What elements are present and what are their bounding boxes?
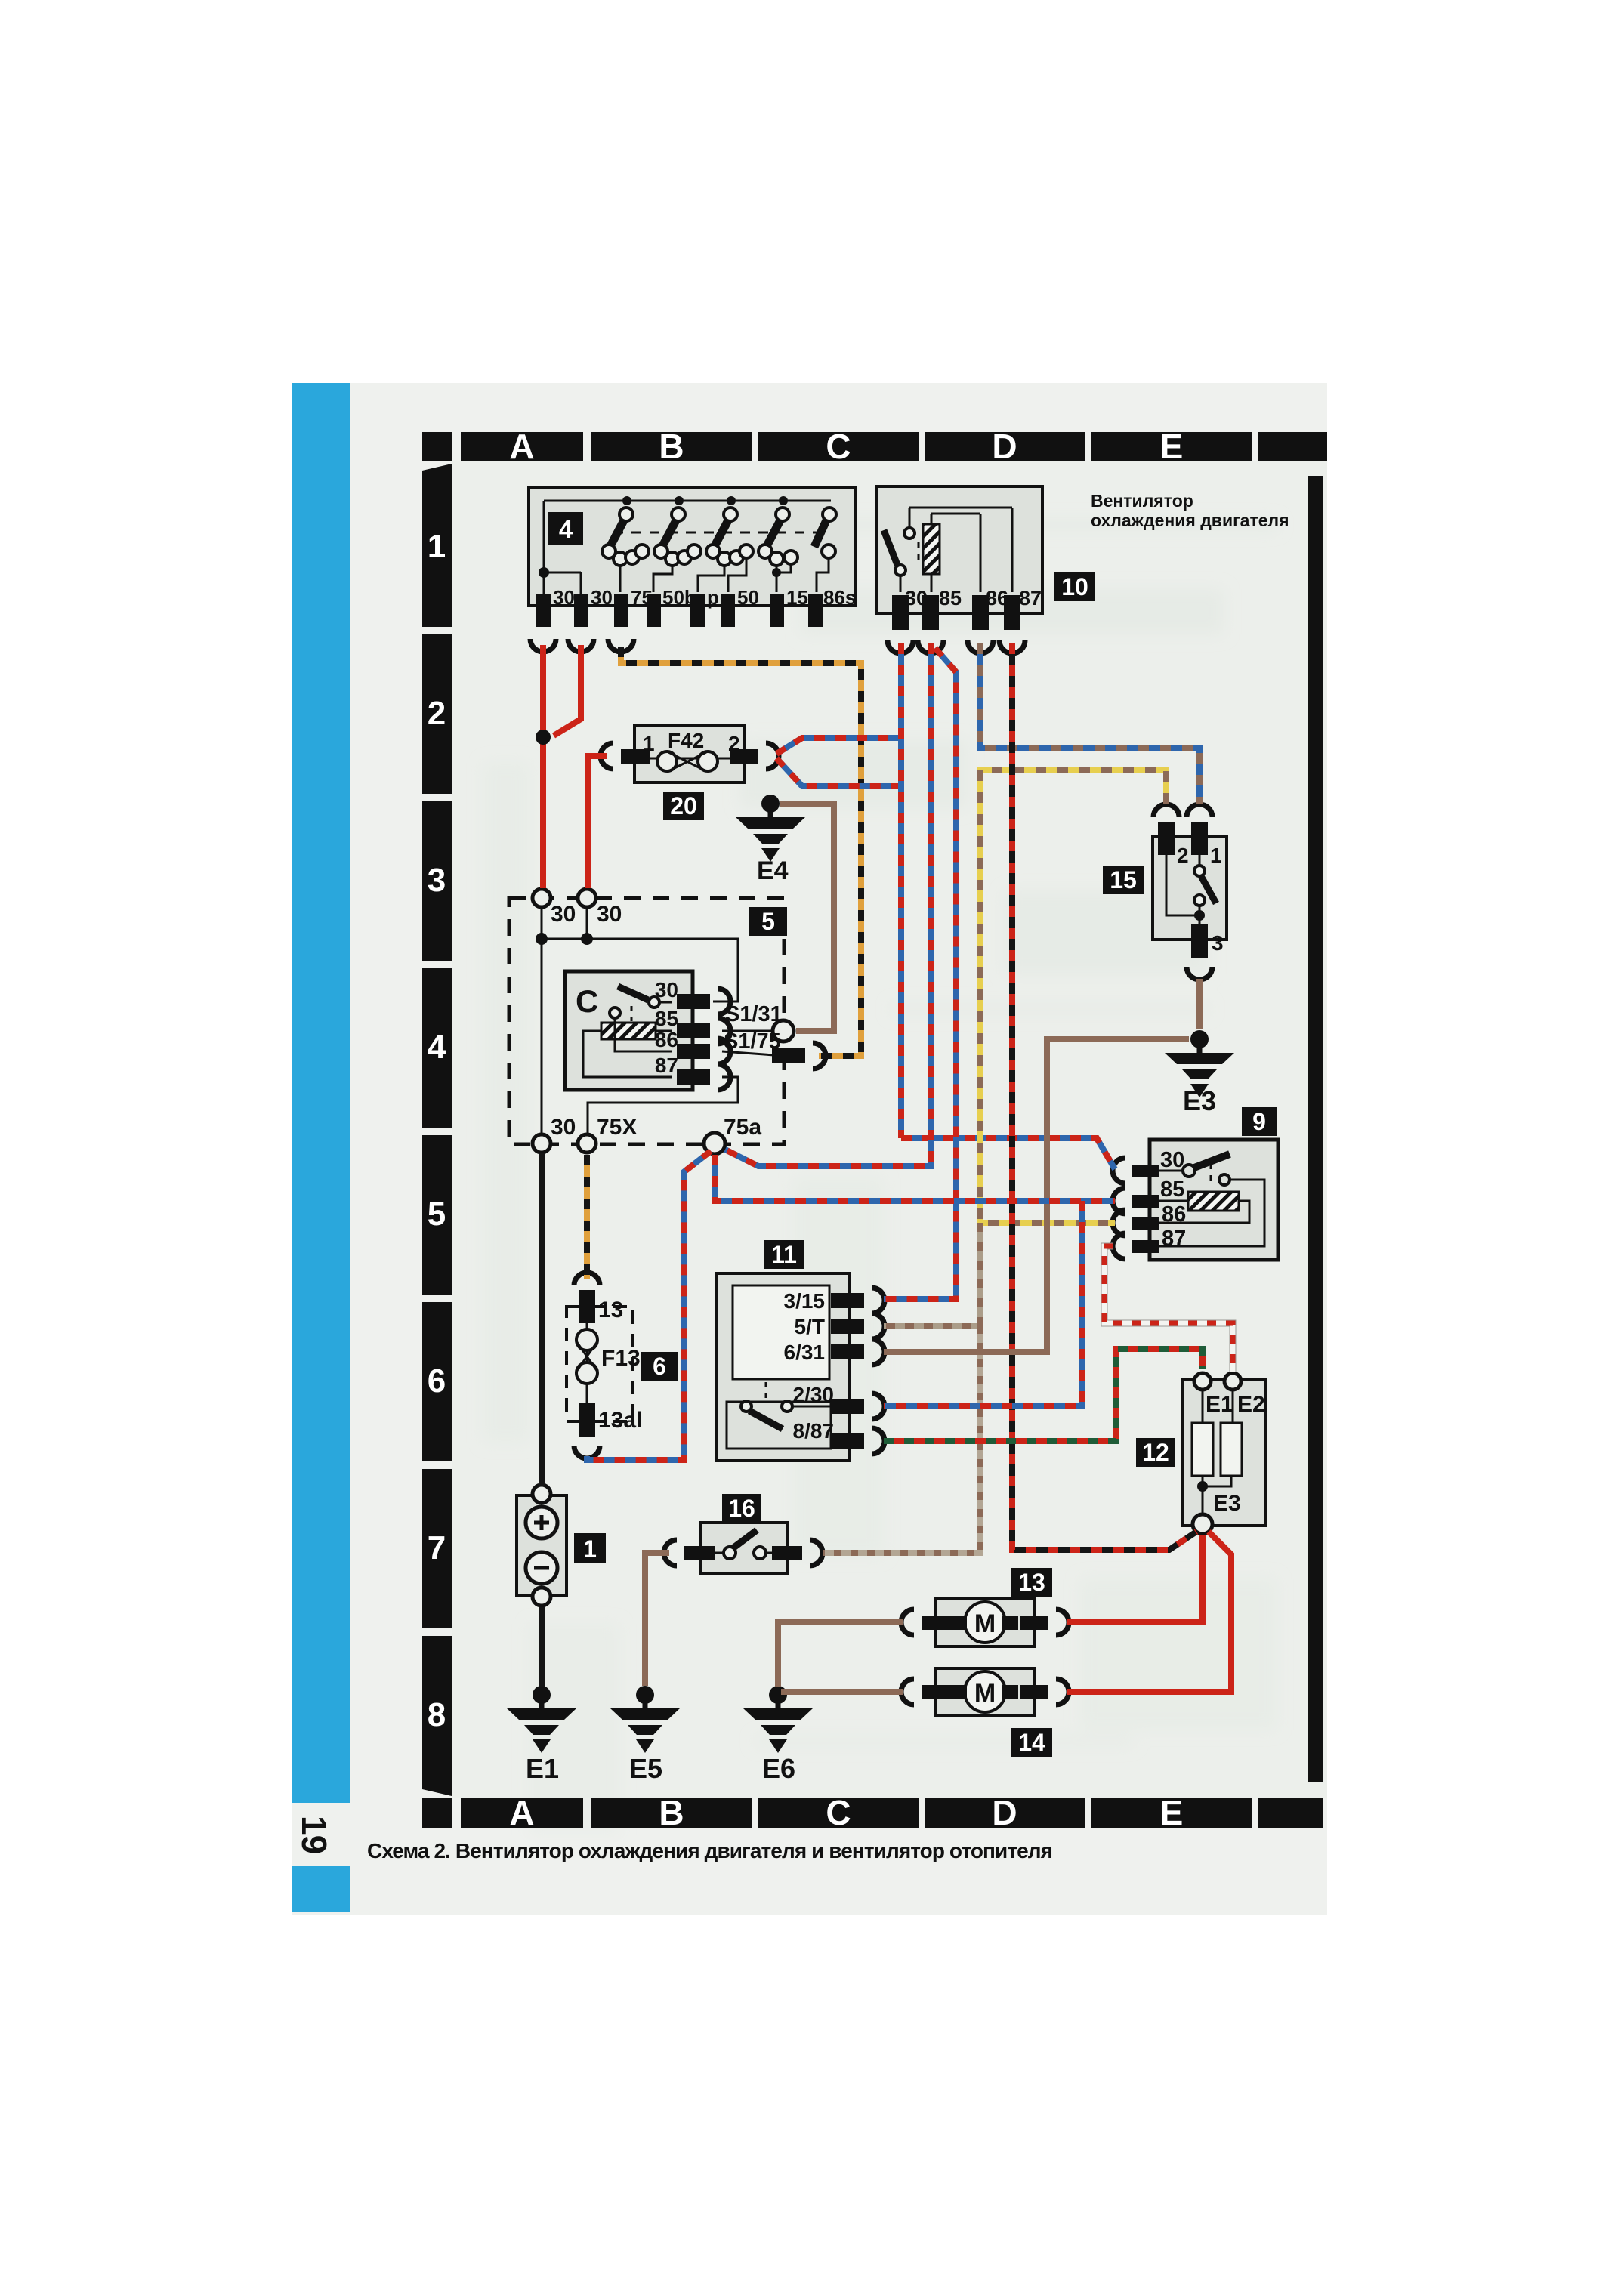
wire ground E4 to S1/31 (brown)	[780, 804, 834, 1031]
node S1/75	[722, 1051, 774, 1055]
wire motor14 to ground E6 (brown)	[781, 1689, 903, 1695]
svg-text:3/15: 3/15	[784, 1289, 826, 1313]
node 30 (bottom)	[533, 1134, 551, 1153]
wire ground E3 to unit11 6/31 (brown)	[884, 1039, 1189, 1352]
relay 10 terminal labels	[905, 587, 1042, 609]
svg-text:13: 13	[1018, 1569, 1045, 1596]
relay C switch	[618, 986, 648, 1000]
wire resistor E3 to motor13 (red)	[1067, 1535, 1203, 1622]
svg-text:3: 3	[1212, 931, 1224, 955]
wire fuse F42 pin1 to node 30 (red)	[588, 756, 607, 888]
wire relay9:87 to resistor E2 (white/red)	[1104, 1246, 1233, 1372]
svg-text:5: 5	[428, 1196, 446, 1233]
svg-text:Вентилятор: Вентилятор	[1091, 491, 1193, 511]
ignition switch park dashed line	[613, 532, 823, 534]
relay C box	[565, 971, 693, 1090]
wire ignition 75 to S1/75 (yellow/black)	[621, 647, 861, 1056]
svg-text:30: 30	[553, 586, 575, 609]
svg-text:6: 6	[653, 1353, 666, 1380]
svg-text:A: A	[509, 427, 534, 466]
wire relay10:86 to switch15 pin1 (blue/brown)	[980, 643, 1199, 804]
wire relay10:30 down to relay9 row (red/blue)	[898, 643, 904, 1138]
wire switch15 pin3 to ground E3 (brown)	[1196, 979, 1203, 1029]
row numbers	[428, 528, 446, 1733]
svg-text:15: 15	[1110, 866, 1137, 893]
switch part	[765, 1382, 767, 1403]
svg-text:12: 12	[1142, 1439, 1169, 1466]
ground E5	[610, 1686, 680, 1784]
heater fan motor 14	[901, 1668, 1069, 1757]
svg-text:14: 14	[1018, 1729, 1045, 1756]
svg-text:9: 9	[1252, 1108, 1266, 1135]
wire to relay9:30 (red/blue)	[901, 1138, 1115, 1169]
wire relay10:87 to resistor node E3 (black/red)	[1012, 643, 1196, 1550]
wire branch to switch16 (gray/brown)	[823, 1326, 980, 1553]
svg-text:E: E	[1160, 427, 1184, 466]
label 1	[574, 1533, 606, 1563]
svg-text:75X: 75X	[597, 1115, 637, 1140]
border frame: left bar segments with row numbers	[422, 464, 452, 1796]
ground E1	[507, 1686, 576, 1784]
node 30 (top right)	[578, 889, 596, 907]
border frame: bottom bar segments	[422, 1798, 1323, 1828]
svg-text:13: 13	[598, 1298, 623, 1322]
ground E6	[743, 1686, 813, 1784]
wire branch to unit11 5/T (yellow/brown)	[884, 1223, 980, 1326]
label 20	[663, 792, 704, 820]
svg-text:B: B	[659, 1793, 684, 1832]
relay 9 pins	[1132, 1165, 1159, 1253]
fuse symbol	[586, 1323, 588, 1403]
svg-text:D: D	[992, 427, 1017, 466]
svg-text:1: 1	[583, 1535, 597, 1563]
svg-text:E: E	[1160, 1793, 1184, 1832]
connector arcs under pins 30 30 75	[530, 639, 556, 652]
node E1	[1194, 1373, 1211, 1390]
svg-text:S1/31: S1/31	[725, 1002, 783, 1026]
switch 16	[664, 1494, 823, 1574]
wire switch15 pin2 to relay9:86 (yellow/brown)	[980, 770, 1166, 1223]
dashed box 5 (ignition/starter relay unit)	[509, 889, 826, 1154]
pin 2	[730, 749, 758, 764]
pin 1	[621, 749, 650, 764]
relay 9 (heater fan relay)	[1113, 1107, 1278, 1260]
svg-text:4: 4	[428, 1029, 446, 1066]
label 6	[641, 1352, 678, 1381]
svg-text:4: 4	[559, 515, 573, 543]
heater fan motor 13	[901, 1568, 1069, 1646]
pin 2	[1153, 804, 1179, 817]
svg-text:75a: 75a	[724, 1115, 761, 1140]
junction to E3	[1202, 1476, 1204, 1515]
relay 9 terminal labels	[1160, 1148, 1186, 1251]
node S1/31	[722, 1030, 773, 1032]
junction dot on red wire	[536, 730, 551, 745]
svg-text:3: 3	[428, 862, 446, 899]
ground E3	[1165, 1030, 1234, 1116]
svg-text:E2: E2	[1237, 1392, 1265, 1417]
relay C pins	[677, 994, 710, 1085]
svg-text:5: 5	[761, 908, 775, 935]
svg-text:85: 85	[655, 1007, 678, 1030]
svg-text:30: 30	[597, 902, 622, 927]
svg-text:19: 19	[295, 1816, 334, 1854]
wire battery positive to node 30 (black)	[539, 1153, 545, 1486]
svg-text:2: 2	[428, 695, 446, 732]
fuse F42 (box 20)	[601, 725, 779, 820]
border frame: right heavy bar	[1308, 476, 1323, 1782]
resistor block 12	[1136, 1373, 1266, 1534]
blue margin stripe	[292, 383, 350, 1803]
battery 1	[517, 1485, 606, 1606]
wire relay10:85 to node 75a (red/blue)	[725, 643, 931, 1166]
svg-text:2: 2	[1177, 844, 1189, 867]
resistor R1	[1202, 1390, 1204, 1423]
svg-text:30: 30	[551, 1115, 576, 1140]
svg-text:C: C	[826, 1793, 851, 1832]
svg-text:M: M	[974, 1679, 996, 1708]
svg-text:E5: E5	[629, 1753, 662, 1784]
relay 10 pins 30 85 86 87	[892, 595, 1020, 630]
wire node 75a to fuse 13al (red/blue)	[587, 1151, 711, 1460]
svg-text:85: 85	[939, 587, 962, 609]
svg-text:30: 30	[655, 978, 678, 1001]
svg-text:13al: 13al	[598, 1408, 642, 1433]
svg-text:30: 30	[591, 586, 613, 609]
wire relay10:85 branch to unit11 3/15 (red/blue)	[884, 648, 956, 1299]
svg-text:F42: F42	[668, 729, 704, 752]
terminal pins	[536, 594, 823, 627]
svg-text:E3: E3	[1183, 1085, 1216, 1116]
relay C coil	[601, 1023, 656, 1039]
svg-text:87: 87	[1019, 587, 1042, 609]
svg-text:86: 86	[655, 1028, 678, 1051]
svg-text:11: 11	[771, 1241, 797, 1268]
relay 9 switch	[1157, 1170, 1183, 1172]
svg-text:5/T: 5/T	[795, 1315, 825, 1338]
relay 10 coil	[923, 524, 940, 574]
svg-text:B: B	[659, 427, 684, 466]
svg-text:8: 8	[428, 1696, 446, 1733]
svg-text:1: 1	[1210, 844, 1222, 867]
wire unit11 8/87 to resistor E1 (red/green)	[884, 1349, 1203, 1441]
internal bus wires	[541, 907, 543, 1135]
pin 1	[1187, 804, 1212, 817]
wire branch to unit11 2/30 (red/blue)	[884, 1201, 1082, 1406]
wire ground E5 to switch16 (brown)	[645, 1553, 669, 1686]
switch 15 contacts	[1199, 855, 1201, 866]
svg-text:M: M	[974, 1609, 996, 1638]
svg-text:D: D	[992, 1793, 1017, 1832]
svg-text:E6: E6	[762, 1753, 795, 1784]
pin 13al	[579, 1403, 595, 1437]
fuse F13 (box 6)	[567, 1273, 678, 1458]
wire node 75a to relay9:85 (red/blue)	[715, 1155, 1115, 1201]
svg-text:C: C	[576, 983, 598, 1019]
svg-text:7: 7	[428, 1529, 446, 1566]
wire F42 pin2 upper branch to relay10:30 (red/blue)	[776, 738, 901, 754]
scanned page background	[292, 383, 1327, 1915]
faint bleed-through ghosts	[483, 521, 1277, 1835]
svg-text:86s: 86s	[823, 586, 856, 609]
label 10	[1054, 572, 1095, 601]
svg-text:E3: E3	[1213, 1491, 1241, 1516]
ignition switch gang contacts	[602, 496, 836, 592]
heater control unit 11	[716, 1240, 885, 1461]
ground E4	[736, 795, 805, 885]
wire ignition 30a to node 30 (red)	[540, 645, 546, 888]
wire motor13 to ground E6 (brown)	[778, 1622, 903, 1687]
wire F42 pin2 lower branch (red/blue)	[776, 758, 901, 786]
node E2	[1224, 1373, 1241, 1390]
svg-text:Схема 2. Вентилятор охлаждения: Схема 2. Вентилятор охлаждения двигателя…	[367, 1839, 1053, 1862]
svg-text:6/31: 6/31	[784, 1341, 826, 1364]
resistor R2	[1221, 1423, 1242, 1476]
relay 10 switch	[900, 576, 902, 592]
svg-text:8/87: 8/87	[793, 1419, 835, 1443]
svg-text:2/30: 2/30	[793, 1383, 835, 1406]
svg-text:10: 10	[1061, 573, 1088, 600]
svg-text:охлаждения двигателя: охлаждения двигателя	[1091, 511, 1289, 530]
node 75X	[578, 1134, 596, 1153]
svg-text:E4: E4	[757, 856, 789, 885]
svg-text:30: 30	[1160, 1148, 1184, 1172]
svg-text:85: 85	[1160, 1177, 1184, 1202]
svg-text:E1: E1	[1206, 1392, 1233, 1417]
thermo switch 15	[1103, 804, 1227, 980]
ignition switch internal bus	[544, 500, 831, 502]
pins 3/15 5/T 6/31 2/30 8/87	[831, 1293, 864, 1449]
svg-text:87: 87	[655, 1054, 678, 1077]
fuse symbol	[648, 758, 731, 760]
pin 13	[574, 1273, 600, 1285]
wire battery negative to ground E1 (black)	[539, 1607, 545, 1687]
ignition switch 4	[529, 488, 856, 652]
node 75a	[704, 1133, 725, 1154]
svg-text:50: 50	[737, 586, 759, 609]
column letters bottom	[509, 1793, 1183, 1832]
relay 10 (cooling fan relay)	[876, 486, 1095, 653]
node 30 (top left)	[533, 889, 551, 907]
wire resistor E3 to motor14 (red)	[1067, 1532, 1231, 1692]
svg-text:16: 16	[728, 1495, 755, 1522]
svg-text:20: 20	[670, 792, 697, 819]
relay C terminal labels	[655, 978, 678, 1077]
svg-text:6: 6	[428, 1362, 446, 1400]
svg-text:C: C	[826, 427, 851, 466]
column letters top	[509, 427, 1183, 466]
svg-text:A: A	[509, 1793, 534, 1832]
svg-text:E1: E1	[526, 1753, 559, 1784]
terminal labels 30 30 75 50b p 50 15 86s	[553, 586, 856, 609]
wire 87 to 75X	[588, 1077, 738, 1134]
terminal labels 3/15 5/T 6/31	[784, 1289, 826, 1364]
pin 3	[1191, 924, 1208, 958]
svg-text:30: 30	[551, 902, 576, 927]
svg-text:F13: F13	[601, 1346, 641, 1371]
border frame: top bar segments	[422, 432, 1327, 461]
wire node 75X to fuse 13 (yellow/black)	[584, 1155, 590, 1279]
svg-text:p: p	[707, 586, 719, 609]
svg-text:1: 1	[428, 528, 446, 565]
wire ignition 30b to junction (red)	[554, 645, 581, 736]
svg-text:15: 15	[786, 586, 808, 609]
relay 9 coil	[1188, 1192, 1239, 1211]
